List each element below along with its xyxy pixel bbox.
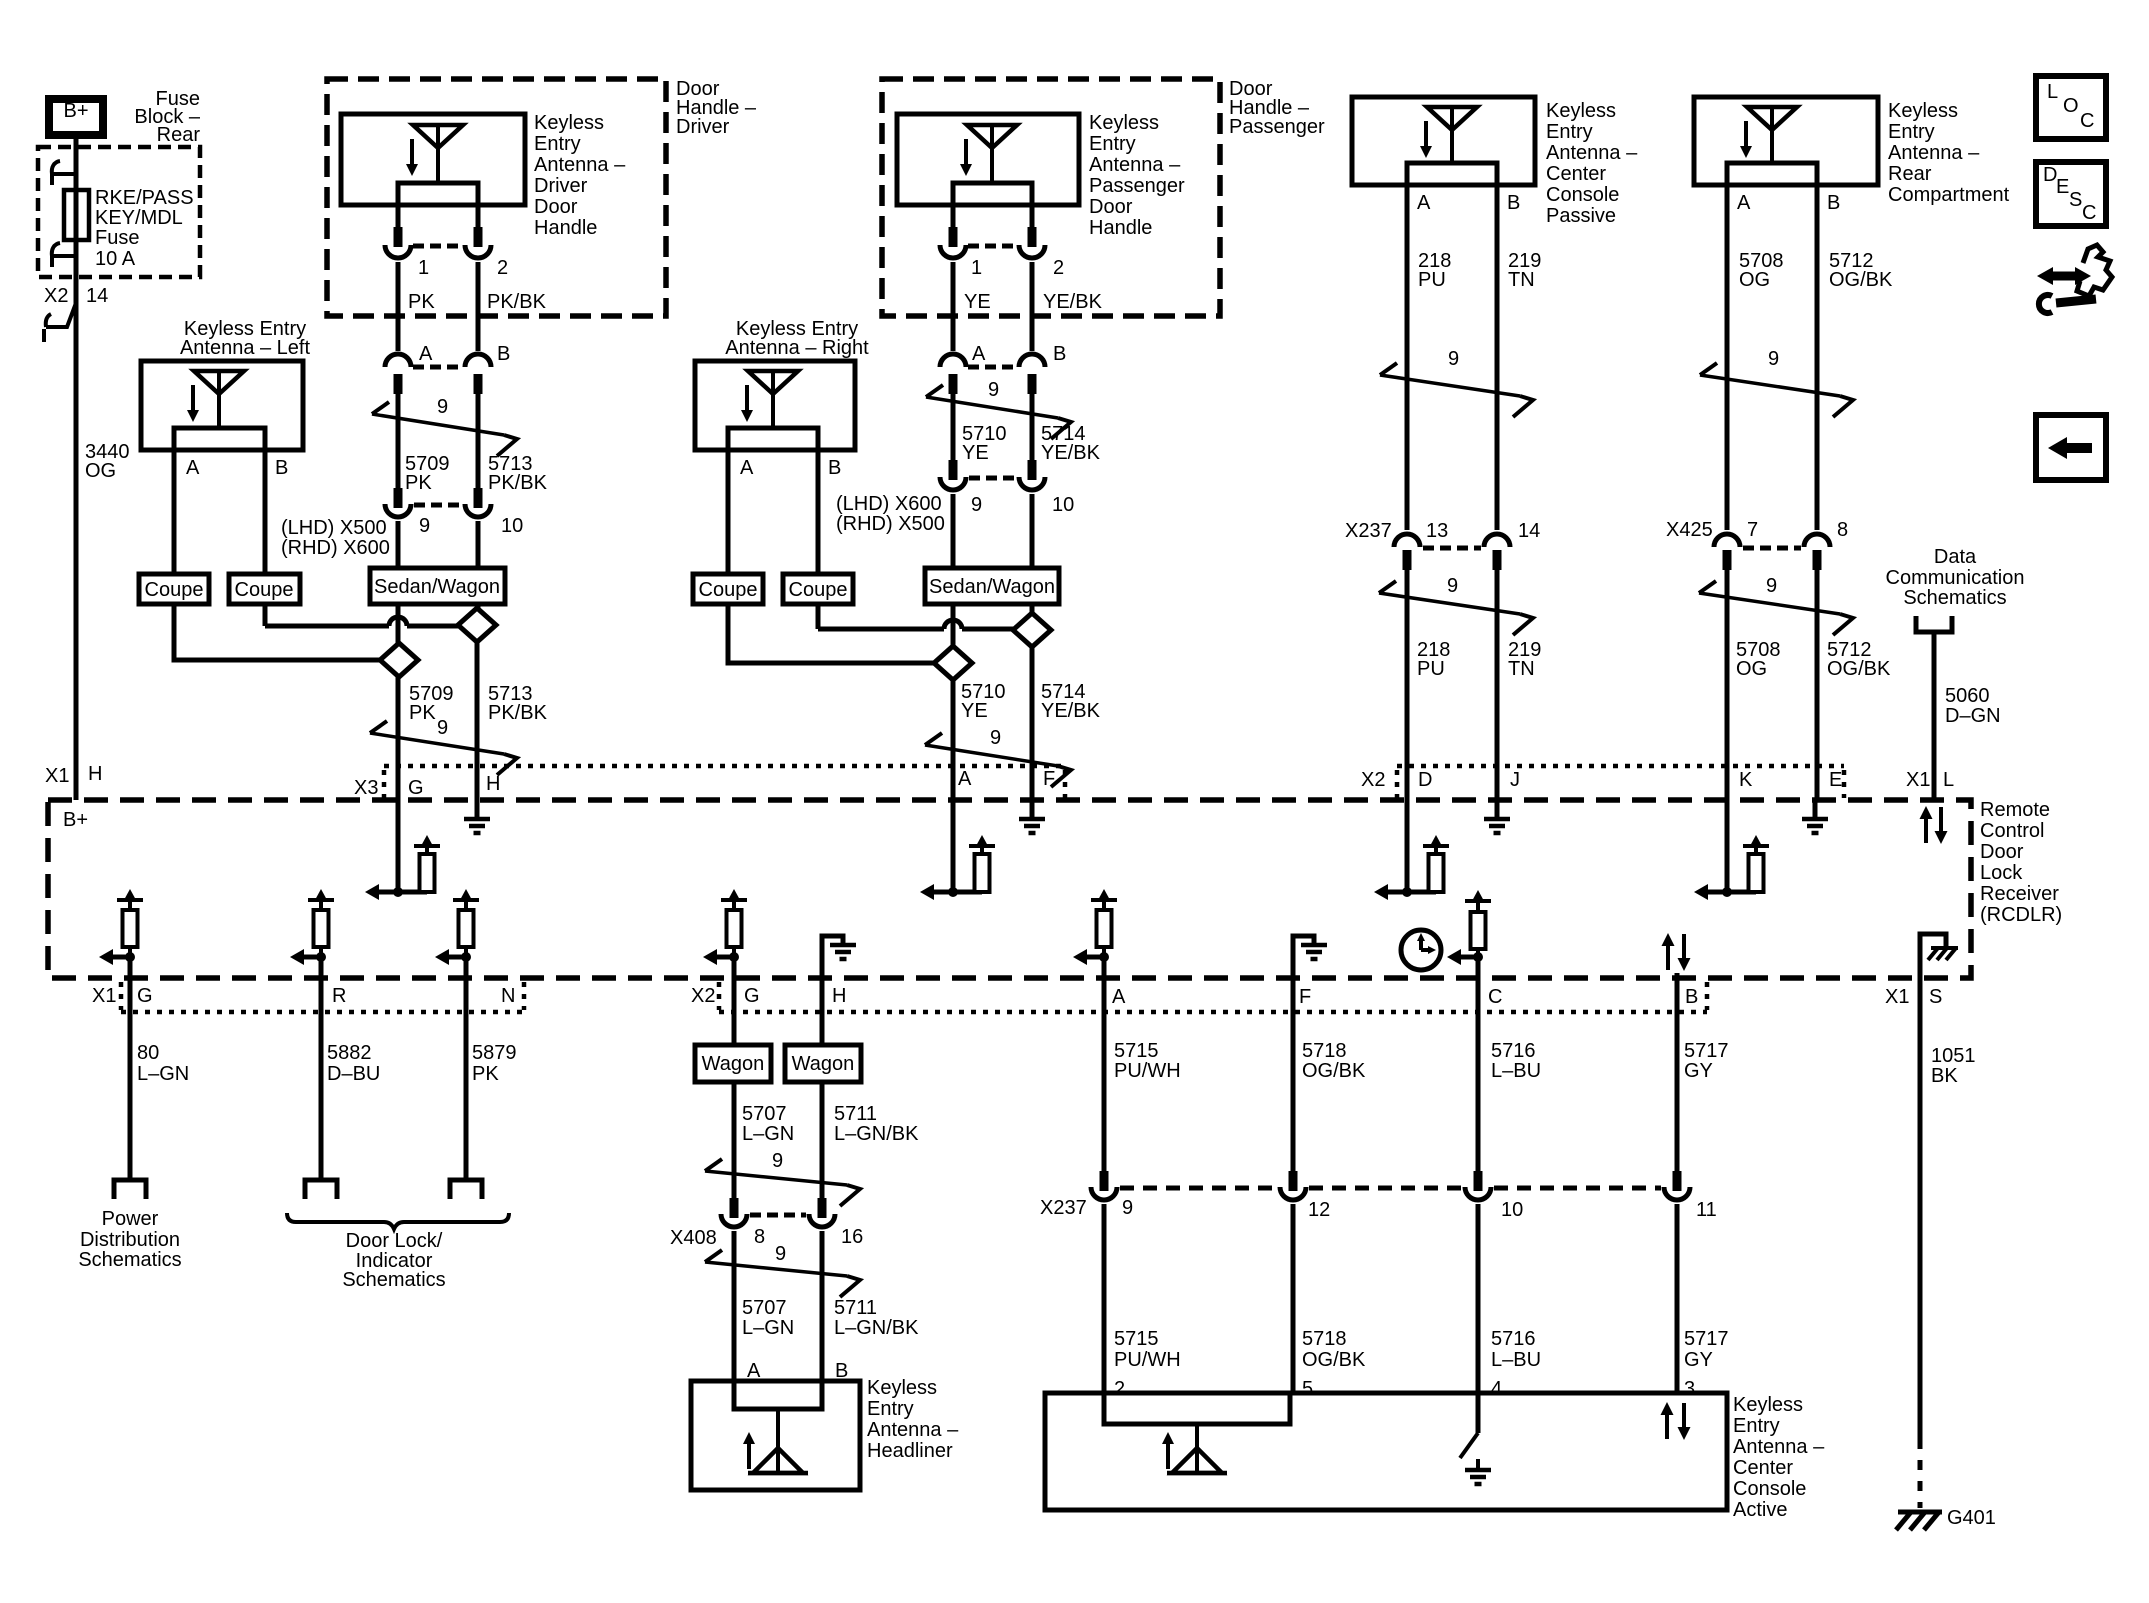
svg-text:Keyless: Keyless <box>1733 1394 1803 1416</box>
label Data Communication Schematics <box>1886 546 2025 609</box>
internal load on 5707 <box>703 889 747 965</box>
svg-text:L–GN: L–GN <box>742 1123 794 1145</box>
svg-text:PK: PK <box>405 472 432 494</box>
splice diamond on 5709 <box>380 643 418 677</box>
svg-text:Antenna –: Antenna – <box>1089 154 1181 176</box>
svg-text:YE: YE <box>964 291 991 313</box>
Coupe box 1 <box>139 574 209 604</box>
svg-text:(LHD) X500: (LHD) X500 <box>281 517 387 539</box>
svg-text:A: A <box>1737 192 1751 214</box>
labels 218 PU / 219 TN <box>1418 250 1541 291</box>
svg-text:BK: BK <box>1931 1065 1958 1087</box>
svg-text:5715: 5715 <box>1114 1040 1159 1062</box>
keyless entry antenna passenger door handle box <box>897 114 1079 205</box>
svg-text:Schematics: Schematics <box>78 1249 181 1271</box>
svg-text:G: G <box>408 777 424 799</box>
svg-text:10 A: 10 A <box>95 248 136 270</box>
svg-text:B: B <box>828 457 841 479</box>
ground F (5714) <box>1019 802 1045 833</box>
svg-text:L–GN/BK: L–GN/BK <box>834 1123 919 1145</box>
updown arrows on 5717 <box>1662 933 1691 971</box>
clock symbol + load on 5716 <box>1401 930 1441 970</box>
wire right antenna B <box>816 450 821 574</box>
svg-text:Distribution: Distribution <box>80 1229 180 1251</box>
svg-text:5707: 5707 <box>742 1297 787 1319</box>
internal ground for 5711 <box>822 936 856 978</box>
off-page door lock 2 <box>450 1180 482 1199</box>
svg-text:9: 9 <box>775 1243 786 1265</box>
svg-text:L–GN/BK: L–GN/BK <box>834 1317 919 1339</box>
svg-text:Door: Door <box>534 196 578 218</box>
antenna passenger connector tab <box>953 183 1032 205</box>
svg-text:5716: 5716 <box>1491 1328 1536 1350</box>
wire 2 to B <box>476 262 481 351</box>
svg-text:8: 8 <box>1837 519 1848 541</box>
svg-text:B+: B+ <box>63 100 88 122</box>
svg-text:5716: 5716 <box>1491 1040 1536 1062</box>
labels 5710 YE / 5714 YE/BK <box>962 423 1101 464</box>
wire 3440 OG label <box>85 441 130 482</box>
svg-text:OG/BK: OG/BK <box>1302 1349 1366 1371</box>
svg-text:Sedan/Wagon: Sedan/Wagon <box>374 576 500 598</box>
wires below wagon <box>732 1082 737 1200</box>
svg-text:H: H <box>88 763 102 785</box>
Coupe box 3 <box>693 574 763 604</box>
headliner connector tab <box>734 1381 822 1409</box>
label Keyless Entry Antenna - Headliner <box>867 1377 959 1462</box>
svg-text:B: B <box>497 343 510 365</box>
labels 218 PU / 219 TN lower <box>1417 639 1541 680</box>
svg-text:OG: OG <box>85 460 116 482</box>
svg-text:B: B <box>275 457 288 479</box>
svg-text:S: S <box>1929 986 1942 1008</box>
wire coupe1 to splice <box>174 604 380 660</box>
svg-text:YE/BK: YE/BK <box>1041 700 1101 722</box>
wire 5715 <box>1102 957 1107 1173</box>
svg-text:9: 9 <box>971 494 982 516</box>
pin labels A B rear <box>1737 192 1840 214</box>
wires into Sedan/Wagon passenger <box>951 494 956 568</box>
svg-text:1: 1 <box>418 257 429 279</box>
svg-text:PK: PK <box>409 702 436 724</box>
wire 5709 below <box>396 604 401 643</box>
svg-text:G401: G401 <box>1947 1507 1996 1529</box>
wire 5713 to ground <box>475 642 480 802</box>
svg-text:9: 9 <box>990 727 1001 749</box>
wire 5879 PK <box>464 957 469 1180</box>
X2 terminal pigtail <box>44 303 76 342</box>
fuse terminal bottom <box>52 243 76 267</box>
label Fuse Block - Rear <box>134 88 200 146</box>
label Door Handle - Driver <box>676 78 757 138</box>
fuse terminal top <box>52 161 76 185</box>
wire 5716 <box>1476 957 1481 1173</box>
wire 5718 <box>1291 978 1296 1173</box>
svg-text:Console: Console <box>1546 184 1619 206</box>
svg-text:OG: OG <box>1736 658 1767 680</box>
internal load on 5882 <box>290 889 334 965</box>
Coupe box 2 <box>229 574 300 604</box>
labels 5708 OG / 5712 OG/BK <box>1739 250 1893 291</box>
crossing 9 wagon lower <box>705 1243 860 1297</box>
internal load on 218 <box>1374 835 1449 900</box>
svg-text:12: 12 <box>1308 1199 1330 1221</box>
svg-text:H: H <box>832 985 846 1007</box>
svg-text:C: C <box>2082 202 2096 224</box>
svg-text:(LHD) X600: (LHD) X600 <box>836 493 942 515</box>
connector A,B passenger <box>940 354 1045 394</box>
wire 5708 upper <box>1725 185 1730 530</box>
svg-text:Remote: Remote <box>1980 799 2050 821</box>
svg-text:Coupe: Coupe <box>699 579 758 601</box>
connector pins 1,2 driver <box>385 227 491 258</box>
antenna symbol right <box>741 371 798 428</box>
svg-text:PU: PU <box>1417 658 1445 680</box>
wires to console active <box>1102 1204 1107 1393</box>
wire A down <box>396 392 401 490</box>
keyless entry antenna right box <box>695 361 855 450</box>
Wagon box 2 <box>785 1045 861 1082</box>
keyless entry antenna headliner box <box>691 1381 860 1490</box>
svg-text:9: 9 <box>1447 575 1458 597</box>
connector X237 bottom row <box>1091 1171 1690 1200</box>
door handle driver dashed box <box>327 79 666 316</box>
svg-text:9: 9 <box>988 379 999 401</box>
svg-text:3: 3 <box>1684 1378 1695 1400</box>
svg-text:X408: X408 <box>670 1227 717 1249</box>
svg-text:Coupe: Coupe <box>145 579 204 601</box>
svg-text:Door: Door <box>1980 841 2024 863</box>
labels 5060 D-GN <box>1945 685 2001 727</box>
svg-text:10: 10 <box>1501 1199 1523 1221</box>
wire coupe2 to splice w/ hop <box>265 604 458 626</box>
svg-text:Antenna – Left: Antenna – Left <box>180 337 311 359</box>
svg-text:14: 14 <box>1518 520 1540 542</box>
svg-text:16: 16 <box>841 1226 863 1248</box>
svg-text:Keyless: Keyless <box>1546 100 1616 122</box>
svg-text:(RHD) X500: (RHD) X500 <box>836 513 945 535</box>
svg-text:X2: X2 <box>44 285 68 307</box>
svg-text:5060: 5060 <box>1945 685 1990 707</box>
LOC icon <box>2036 76 2106 139</box>
svg-text:9: 9 <box>437 396 448 418</box>
connector X2 pin 14 labels <box>44 285 108 307</box>
svg-text:Rear: Rear <box>157 124 201 146</box>
crossing 9 passenger upper <box>926 379 1071 439</box>
svg-text:F: F <box>1043 768 1055 790</box>
svg-text:Sedan/Wagon: Sedan/Wagon <box>929 576 1055 598</box>
wire 1051 dashed <box>1918 1439 1923 1508</box>
B+ power feed box <box>49 99 103 135</box>
wire B down <box>476 392 481 490</box>
svg-text:Entry: Entry <box>867 1398 914 1420</box>
wires A,B down passenger <box>951 392 956 462</box>
wire 1051 top <box>1918 978 1923 1439</box>
svg-text:5717: 5717 <box>1684 1040 1729 1062</box>
Wagon box 1 <box>695 1045 771 1082</box>
wire 5714 below <box>1030 604 1035 613</box>
svg-text:Driver: Driver <box>534 175 588 197</box>
svg-text:O: O <box>2063 95 2079 117</box>
antenna passive connector tab <box>1407 163 1497 185</box>
svg-text:Rear: Rear <box>1888 163 1932 185</box>
svg-text:OG/BK: OG/BK <box>1302 1060 1366 1082</box>
svg-text:14: 14 <box>86 285 108 307</box>
connector row X2 dotted <box>1397 766 1844 798</box>
svg-text:B+: B+ <box>63 809 88 831</box>
internal load on 5709 <box>365 835 440 900</box>
svg-text:X1: X1 <box>45 765 69 787</box>
pin labels A B left antenna <box>186 457 288 479</box>
labels 5709 PK / 5713 PK/BK lower <box>409 683 548 724</box>
wire right antenna A <box>726 450 731 574</box>
svg-text:L–BU: L–BU <box>1491 1349 1541 1371</box>
internal load on 5715 <box>1073 889 1117 965</box>
wire 5710 below <box>951 604 956 646</box>
internal load on 5710 <box>920 835 995 900</box>
svg-text:5717: 5717 <box>1684 1328 1729 1350</box>
wire colors YE YE/BK <box>964 291 1103 313</box>
svg-text:Power: Power <box>102 1208 159 1230</box>
label Keyless Entry Antenna Passenger Door Handle <box>1089 112 1185 239</box>
svg-text:5879: 5879 <box>472 1042 517 1064</box>
svg-text:X1: X1 <box>1906 769 1930 791</box>
internal load on 5879 <box>435 889 479 965</box>
svg-text:C: C <box>1488 986 1502 1008</box>
connector X408 pins 8,16 <box>721 1198 835 1227</box>
svg-text:Door: Door <box>1089 196 1133 218</box>
wire 5712 upper <box>1815 185 1820 530</box>
top pin letter labels <box>45 763 1954 799</box>
svg-text:E: E <box>2056 176 2069 198</box>
svg-text:Communication: Communication <box>1886 567 2025 589</box>
crossing 9 rear lower <box>1699 575 1853 635</box>
svg-text:YE/BK: YE/BK <box>1041 442 1101 464</box>
wire stub pin2 <box>476 205 481 229</box>
label Keyless Entry Antenna - Left <box>180 318 311 359</box>
svg-text:5711: 5711 <box>834 1297 877 1319</box>
fuse RKE/PASS KEY/MDL <box>64 190 89 240</box>
crossing 9 driver lower <box>370 717 517 775</box>
svg-text:GY: GY <box>1684 1349 1713 1371</box>
svg-text:YE: YE <box>961 700 988 722</box>
svg-text:1: 1 <box>971 257 982 279</box>
wire 5711 to wagon <box>820 978 825 1045</box>
back arrow icon <box>2036 415 2106 480</box>
wire 5060 D-GN <box>1932 632 1937 800</box>
wire 5714 to ground <box>1030 647 1035 802</box>
wire stubs pins 1,2 passenger <box>951 205 956 229</box>
svg-text:A: A <box>972 343 986 365</box>
antenna rear connector tab <box>1727 163 1817 185</box>
svg-text:Antenna – Right: Antenna – Right <box>725 337 869 359</box>
ground J (219) <box>1484 802 1510 833</box>
connector A,B driver <box>385 354 491 394</box>
svg-text:5718: 5718 <box>1302 1040 1347 1062</box>
svg-text:5711: 5711 <box>834 1103 877 1125</box>
svg-text:Schematics: Schematics <box>1903 587 2006 609</box>
svg-text:TN: TN <box>1508 658 1535 680</box>
wire 219 lower <box>1495 568 1500 802</box>
svg-text:5882: 5882 <box>327 1042 372 1064</box>
svg-text:A: A <box>186 457 200 479</box>
svg-text:2: 2 <box>1053 257 1064 279</box>
label (LHD) X600 (RHD) X500 <box>836 493 945 535</box>
wire 218 lower <box>1405 568 1410 892</box>
Coupe box 4 <box>783 574 853 604</box>
svg-text:Passenger: Passenger <box>1089 175 1185 197</box>
svg-text:PU/WH: PU/WH <box>1114 1060 1181 1082</box>
svg-text:Passive: Passive <box>1546 205 1616 227</box>
svg-text:PU/WH: PU/WH <box>1114 1349 1181 1371</box>
svg-text:8: 8 <box>754 1226 765 1248</box>
svg-text:X237: X237 <box>1040 1197 1087 1219</box>
svg-text:Entry: Entry <box>1888 121 1935 143</box>
label Keyless Entry Antenna Center Console Active <box>1733 1394 1825 1521</box>
connector pins 1,2 passenger <box>940 227 1045 258</box>
wire coupe3 to splice <box>728 604 934 663</box>
connector X500 pins 9,10 <box>385 488 491 517</box>
antenna left connector tab <box>174 428 265 450</box>
keyless entry antenna rear compartment box <box>1694 97 1878 185</box>
chassis ground G401 <box>1896 1507 1996 1530</box>
svg-text:D–GN: D–GN <box>1945 705 2001 727</box>
wire 5717 <box>1675 973 1680 1173</box>
svg-text:A: A <box>1112 986 1126 1008</box>
svg-text:Handle: Handle <box>534 217 597 239</box>
svg-text:Keyless: Keyless <box>1888 100 1958 122</box>
crossing 9 passive upper <box>1380 348 1533 417</box>
console active switch to ground <box>1460 1393 1491 1484</box>
wire colors PK PK/BK <box>408 291 547 313</box>
crossing 9 wagon upper <box>705 1150 860 1206</box>
connector X237 pins 13,14 <box>1345 520 1540 542</box>
keyless entry antenna driver door handle box <box>341 114 525 205</box>
wire left antenna B <box>263 450 268 574</box>
svg-text:PK: PK <box>472 1063 499 1085</box>
svg-text:Compartment: Compartment <box>1888 184 2010 206</box>
antenna symbol rear <box>1740 107 1797 163</box>
data comm off-page symbol <box>1916 616 1952 632</box>
antenna symbol passive <box>1420 107 1477 163</box>
pin labels A B headliner <box>747 1360 848 1382</box>
label Keyless Entry Antenna - Right <box>725 318 869 359</box>
svg-text:Entry: Entry <box>1546 121 1593 143</box>
svg-text:Schematics: Schematics <box>342 1269 445 1291</box>
svg-text:Center: Center <box>1546 163 1606 185</box>
svg-text:7: 7 <box>1747 519 1758 541</box>
wires to headliner <box>732 1231 737 1381</box>
wire B+ feed <box>74 135 79 800</box>
wire 5708 lower <box>1725 568 1730 892</box>
svg-text:X1: X1 <box>1885 986 1909 1008</box>
label (LHD) X500 (RHD) X600 <box>281 517 390 559</box>
svg-text:Coupe: Coupe <box>789 579 848 601</box>
svg-text:9: 9 <box>1448 348 1459 370</box>
svg-text:Entry: Entry <box>1733 1415 1780 1437</box>
label Keyless Entry Antenna Center Console Passive <box>1546 100 1638 227</box>
svg-text:9: 9 <box>1766 575 1777 597</box>
svg-text:9: 9 <box>419 515 430 537</box>
wire 5710 to RCDLR <box>951 680 956 892</box>
labels 5708 OG / 5712 OG/BK lower <box>1736 639 1891 680</box>
svg-text:L: L <box>2047 81 2058 103</box>
diagnostic tool icon <box>2037 245 2112 313</box>
wire 1 to A <box>396 262 401 351</box>
svg-text:Coupe: Coupe <box>235 579 294 601</box>
svg-text:N: N <box>501 985 515 1007</box>
label Remote Control Door Lock Receiver (RCDLR) <box>1980 799 2062 926</box>
splice diamond on 5710 <box>934 646 972 680</box>
antenna symbol headliner <box>743 1409 808 1473</box>
svg-text:TN: TN <box>1508 269 1535 291</box>
svg-text:X2: X2 <box>691 985 715 1007</box>
labels 5709 PK / 5713 PK/BK <box>405 453 548 494</box>
labels 5707 L-GN / 5711 L-GN/BK <box>742 1103 919 1145</box>
crossing 9 passenger lower <box>925 727 1071 787</box>
wire 219 upper <box>1495 185 1500 530</box>
keyless entry antenna left box <box>141 361 303 450</box>
svg-text:F: F <box>1299 986 1311 1008</box>
svg-text:Antenna –: Antenna – <box>1733 1436 1825 1458</box>
svg-text:B: B <box>1685 986 1698 1008</box>
svg-text:5: 5 <box>1302 1378 1313 1400</box>
wire coupe4 to splice w/ hop <box>818 604 1013 629</box>
pin labels A B passenger <box>972 343 1066 365</box>
svg-text:OG/BK: OG/BK <box>1829 269 1893 291</box>
door handle passenger dashed box <box>882 79 1220 316</box>
ground E (5712) <box>1802 802 1828 833</box>
svg-text:Entry: Entry <box>1089 133 1136 155</box>
svg-text:PK/BK: PK/BK <box>488 702 548 724</box>
svg-text:5707: 5707 <box>742 1103 787 1125</box>
svg-text:Console: Console <box>1733 1478 1806 1500</box>
svg-text:Receiver: Receiver <box>1980 883 2059 905</box>
pin labels A B right antenna <box>740 457 841 479</box>
svg-text:Antenna –: Antenna – <box>1888 142 1980 164</box>
svg-text:C: C <box>2080 110 2094 132</box>
svg-text:B: B <box>1827 192 1840 214</box>
svg-text:5718: 5718 <box>1302 1328 1347 1350</box>
internal ground for 5718 <box>1293 936 1327 978</box>
svg-text:X425: X425 <box>1666 519 1713 541</box>
svg-text:9: 9 <box>437 717 448 739</box>
svg-text:2: 2 <box>1114 1378 1125 1400</box>
svg-text:PU: PU <box>1418 269 1446 291</box>
wire 5712 lower <box>1815 568 1820 802</box>
svg-text:Keyless: Keyless <box>1089 112 1159 134</box>
svg-text:Control: Control <box>1980 820 2044 842</box>
ground H (5713) <box>464 802 490 833</box>
X237 row dashes <box>1120 1186 1661 1191</box>
svg-text:X3: X3 <box>354 777 378 799</box>
label Keyless Entry Antenna Rear Compartment <box>1888 100 2010 206</box>
svg-text:Active: Active <box>1733 1499 1787 1521</box>
svg-text:10: 10 <box>501 515 523 537</box>
wire stub pin1 <box>396 205 401 229</box>
svg-text:GY: GY <box>1684 1060 1713 1082</box>
keyless entry antenna center console passive box <box>1352 97 1535 185</box>
labels 5710 YE / 5714 YE/BK lower <box>961 681 1101 722</box>
svg-text:H: H <box>486 773 500 795</box>
svg-text:L: L <box>1943 769 1954 791</box>
svg-text:K: K <box>1739 769 1753 791</box>
svg-text:4: 4 <box>1491 1378 1502 1400</box>
svg-text:X237: X237 <box>1345 520 1392 542</box>
svg-text:B: B <box>1053 343 1066 365</box>
svg-text:Lock: Lock <box>1980 862 2023 884</box>
svg-text:Data: Data <box>1934 546 1977 568</box>
